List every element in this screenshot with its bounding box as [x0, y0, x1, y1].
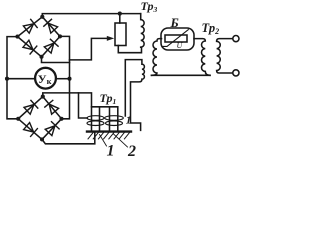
- diode VD7 bottom-left: [24, 123, 38, 137]
- svg-text:Тр2: Тр2: [202, 21, 220, 36]
- node bridge2 right vertex: [59, 117, 63, 121]
- wire rheostat bottom to Tr3 winding bottom: [118, 46, 141, 53]
- svg-text:1: 1: [126, 115, 132, 127]
- bridge 2 (bottom) diamond: [18, 97, 61, 140]
- svg-text:Ук: Ук: [38, 72, 52, 86]
- arrow from rectifier output to rheostat: [70, 38, 109, 60]
- diode VD3 bottom-left (anode left vertex, cathode bottom vertex): [23, 40, 37, 54]
- diode VD8 bottom-right: [45, 122, 59, 136]
- node bridge2 left vertex: [16, 117, 20, 121]
- svg-text:2: 2: [127, 143, 136, 160]
- winding of Tr3 secondary circuit with leads to Tr1 right winding and rail: [125, 60, 144, 131]
- transformer Tr2 secondary winding: [217, 39, 233, 73]
- varistor body inside B: [165, 35, 187, 42]
- node bridge2 bottom vertex: [40, 137, 44, 141]
- varistor diagonal stroke: [162, 30, 188, 47]
- galvanometer Uk circle: [35, 68, 56, 89]
- wire left rail: [7, 37, 18, 119]
- wire Uk left: [7, 78, 35, 80]
- winding turn 1 on left leg of Tr1: [87, 116, 104, 121]
- wire bridge2 top vertex to Tr1 core top: [43, 93, 92, 107]
- leader line to label 1: [100, 135, 107, 147]
- node bridge1 left vertex: [15, 35, 19, 39]
- node bridge1 bottom vertex: [39, 55, 43, 59]
- rail (ground bar): [87, 130, 131, 132]
- bridge 1 (top) diamond: [18, 17, 61, 57]
- svg-text:Б: Б: [170, 15, 179, 30]
- svg-text:Тр1: Тр1: [100, 91, 117, 106]
- wire branch down to Tr1 left winding: [79, 93, 88, 118]
- node bridge1 top vertex: [40, 15, 44, 19]
- diode VD6 top-right: [45, 100, 59, 114]
- winding turn 2 on right leg of Tr1: [106, 121, 123, 126]
- node bridge2 top vertex: [41, 95, 45, 99]
- node bridge1 right vertex: [58, 34, 62, 38]
- wire top bus y13.6 from bridge VD1 top to Tr3 winding: [42, 14, 140, 17]
- wire bridge2 bottom vertex to rail under hatching: [42, 133, 95, 144]
- wire bridge1 right vertex down to bridge2 right vertex: [60, 36, 70, 118]
- svg-text:Тр3: Тр3: [141, 0, 158, 14]
- resistor box R (rheostat of Tr3): [115, 23, 126, 46]
- leader line to label 2: [114, 134, 128, 147]
- transformer Tr1 probe core (П-shape): [92, 107, 118, 131]
- node Uk right junction: [67, 77, 71, 81]
- node on rail at Uk wire: [5, 77, 9, 81]
- winding A (left winding of B loop): [152, 39, 162, 76]
- terminal bottom of Tr2: [233, 70, 239, 76]
- node junction on top bus: [118, 12, 122, 16]
- svg-text:1: 1: [107, 143, 115, 160]
- wire bridge1 bottom vertex to vertical bus: [42, 57, 70, 63]
- wire B block to winding B: [194, 39, 210, 76]
- wire Uk right: [56, 78, 70, 80]
- diode VD5 top-left: [24, 100, 38, 114]
- wire stub from top bus down to rheostat box: [119, 14, 121, 23]
- barretter block B: rounded enclosure: [161, 28, 194, 50]
- diode VD2 top-right (anode right vertex, cathode top vertex): [44, 19, 58, 33]
- winding turn 1 on right leg of Tr1: [105, 116, 124, 121]
- hatching of rail: [88, 133, 129, 139]
- winding Tr3: [141, 14, 144, 48]
- winding turn 2 on left leg of Tr1: [87, 121, 104, 126]
- wire B loop bottom: [152, 74, 211, 76]
- arrowhead: [107, 36, 114, 41]
- terminal top of Tr2: [233, 36, 239, 42]
- diode VD1 top-left (anode left vertex, cathode top vertex): [23, 19, 37, 33]
- diode VD4 bottom-right (anode bottom vertex, cathode right vertex): [44, 39, 58, 53]
